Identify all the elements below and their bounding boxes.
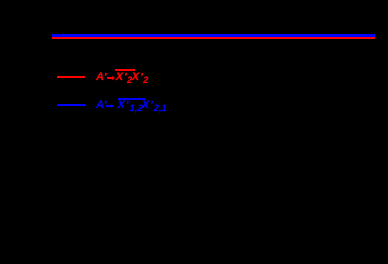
legend blue handle (57, 104, 86, 106)
blue data line (52, 34, 375, 36)
legend blue label (0, 99, 388, 101)
legend red label (0, 71, 388, 73)
legend red handle (57, 76, 86, 78)
red data line (52, 37, 375, 39)
